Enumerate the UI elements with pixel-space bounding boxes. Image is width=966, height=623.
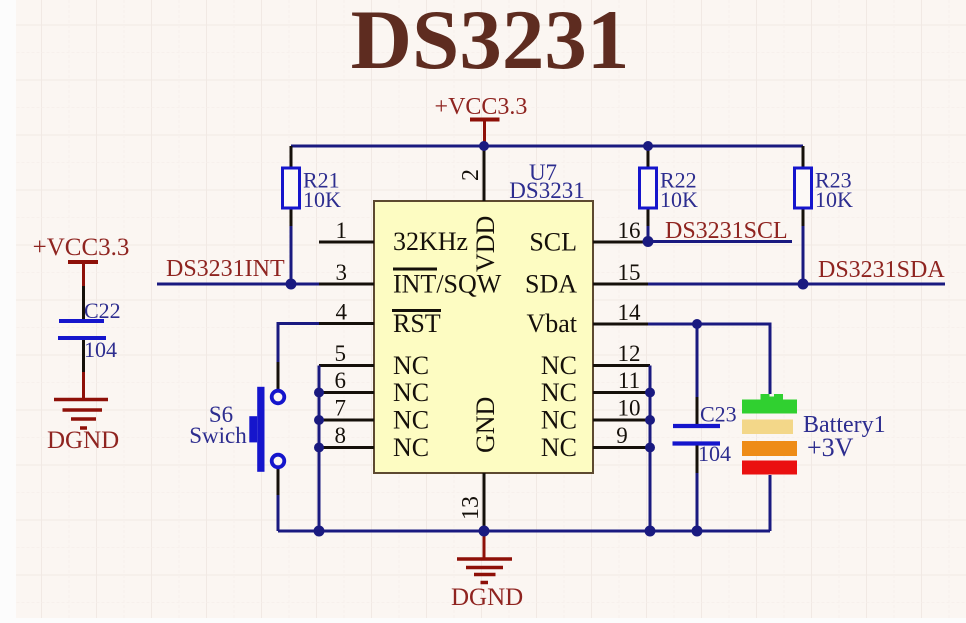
wire battery bottom lead [769, 475, 772, 531]
svg-text:104: 104 [698, 441, 731, 466]
wire center DGND stem [483, 531, 486, 558]
svg-text:32KHz: 32KHz [393, 227, 468, 256]
svg-text:NC: NC [541, 378, 577, 407]
ground DGND (left) [47, 400, 119, 455]
svg-text:NC: NC [541, 406, 577, 435]
svg-text:NC: NC [393, 406, 429, 435]
capacitor C22 [58, 298, 121, 362]
svg-text:10: 10 [618, 396, 641, 421]
wire VCC to C22 [82, 286, 85, 319]
wire ground rail (bottom) [278, 530, 770, 533]
svg-text:Swich: Swich [189, 423, 247, 448]
battery Battery1 [742, 394, 886, 475]
svg-text:C23: C23 [700, 402, 737, 427]
svg-text:GND: GND [471, 397, 500, 453]
wire pin4 to switch [278, 324, 319, 363]
pin 11 NC [541, 368, 650, 407]
svg-text:10K: 10K [815, 187, 853, 212]
svg-text:5: 5 [335, 341, 347, 366]
svg-text:RST: RST [393, 309, 441, 338]
svg-text:VDD: VDD [471, 216, 500, 272]
svg-text:15: 15 [618, 260, 641, 285]
junction ground rail / NC left [314, 526, 325, 537]
svg-text:8: 8 [335, 423, 347, 448]
svg-text:+VCC3.3: +VCC3.3 [435, 94, 528, 120]
pin 15 SDA [525, 260, 648, 299]
pin 16 SCL [529, 218, 648, 257]
svg-text:6: 6 [335, 368, 347, 393]
svg-text:16: 16 [618, 218, 641, 243]
junction VCC rail / pin2 [479, 141, 489, 151]
wire R22 to node SCL [647, 226, 650, 242]
junction node INT / R21 [286, 279, 297, 290]
svg-text:SDA: SDA [525, 270, 577, 299]
svg-text:NC: NC [541, 351, 577, 380]
wire switch to ground rail [277, 495, 280, 531]
junction NC pin9 [645, 443, 655, 453]
wire node Vbat [648, 324, 770, 399]
pin 5 NC [319, 341, 429, 380]
switch S6 [189, 362, 284, 495]
svg-text:DS3231INT: DS3231INT [166, 256, 285, 282]
svg-text:DS3231SCL: DS3231SCL [665, 218, 788, 244]
svg-text:NC: NC [541, 433, 577, 462]
svg-text:INT/SQW: INT/SQW [393, 270, 502, 299]
pin 7 NC [319, 396, 429, 435]
svg-text:SCL: SCL [529, 228, 577, 257]
svg-text:9: 9 [616, 423, 628, 448]
junction ground rail / C23 [692, 526, 703, 537]
wire node SCL [648, 240, 792, 243]
pin 9 NC [541, 423, 650, 462]
wire R21 to node INT [290, 226, 293, 284]
svg-text:Vbat: Vbat [526, 309, 577, 338]
pin 6 NC [319, 368, 429, 407]
svg-text:DGND: DGND [47, 427, 119, 454]
svg-text:13: 13 [458, 496, 484, 520]
junction NC pin6 [314, 388, 324, 398]
wire node INT [157, 283, 319, 286]
wire C23 top lead [696, 324, 699, 397]
svg-text:10K: 10K [660, 187, 698, 212]
junction node SDA / R23 [798, 279, 809, 290]
pin 8 NC [319, 423, 429, 462]
resistor R23 [795, 146, 854, 226]
svg-text:C22: C22 [84, 298, 121, 323]
svg-text:DS3231: DS3231 [351, 0, 630, 87]
ground DGND (center) [451, 559, 523, 611]
svg-text:NC: NC [393, 433, 429, 462]
svg-text:4: 4 [336, 300, 348, 325]
pin 10 NC [541, 396, 650, 435]
wire NC pins 9-12 vertical [649, 366, 652, 532]
resistor R22 [640, 146, 699, 226]
junction node SCL / R22 [643, 236, 654, 247]
resistor R21 [283, 146, 342, 226]
junction NC pin8 [314, 443, 324, 453]
wire R23 to node SDA [802, 226, 805, 284]
junction NC pin10 [645, 415, 655, 425]
wire C22 to ground [82, 340, 85, 372]
svg-text:1: 1 [336, 218, 348, 243]
pin 4 RST [319, 300, 441, 339]
IC U7 body [374, 201, 593, 473]
svg-text:7: 7 [335, 396, 347, 421]
svg-text:NC: NC [393, 351, 429, 380]
svg-text:2: 2 [458, 169, 484, 181]
svg-text:104: 104 [84, 337, 117, 362]
junction VCC rail / R22 [643, 141, 653, 151]
svg-text:DS3231: DS3231 [509, 178, 584, 203]
svg-text:DS3231SDA: DS3231SDA [818, 257, 945, 283]
wire VCC top rail [291, 145, 803, 148]
pin 2 VDD [458, 146, 500, 272]
junction ground rail / NC right [645, 526, 656, 537]
junction ground rail / pin13 [479, 526, 490, 537]
wire node SDA [648, 283, 945, 286]
pin 3 INT/SQW [319, 260, 502, 299]
pin 13 GND [458, 397, 500, 531]
pin 12 NC [541, 341, 650, 380]
svg-text:11: 11 [618, 368, 640, 393]
svg-text:+VCC3.3: +VCC3.3 [33, 234, 130, 261]
power symbol +VCC3.3 bar (left) [68, 262, 98, 286]
svg-text:14: 14 [618, 300, 642, 325]
junction node Vbat / C23 [692, 319, 702, 329]
svg-text:+3V: +3V [807, 433, 854, 462]
svg-text:DGND: DGND [451, 584, 523, 611]
wire NC pins 5-8 vertical [318, 366, 321, 532]
pin 1 32KHz [319, 218, 468, 256]
pin 14 Vbat [526, 300, 648, 338]
wire C23 bottom lead [696, 446, 699, 474]
svg-text:3: 3 [336, 260, 348, 285]
svg-text:NC: NC [393, 378, 429, 407]
capacitor C23 [673, 402, 737, 467]
power symbol +VCC3.3 bar (top) [470, 120, 500, 145]
junction NC pin11 [645, 388, 655, 398]
svg-text:12: 12 [618, 341, 641, 366]
svg-text:10K: 10K [303, 187, 341, 212]
junction NC pin7 [314, 415, 324, 425]
